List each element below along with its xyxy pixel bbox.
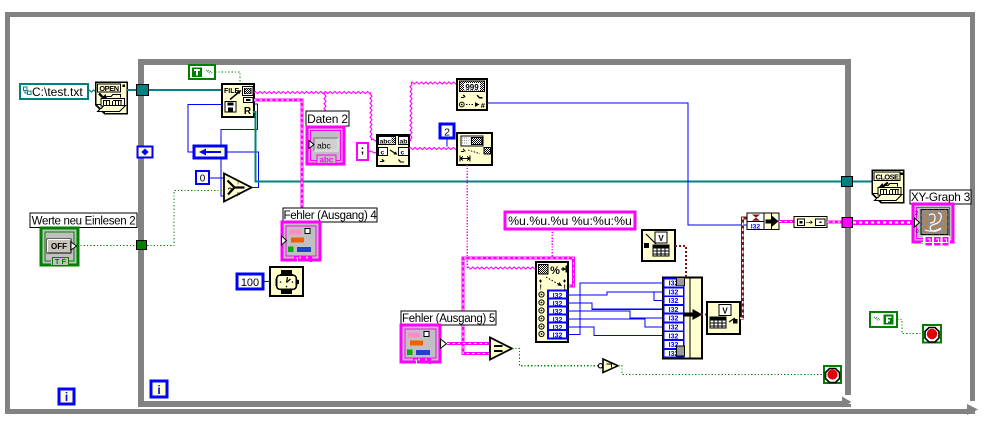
svg-text:I32: I32 xyxy=(553,332,563,339)
svg-text:R: R xyxy=(244,106,252,117)
svg-text:I32: I32 xyxy=(669,325,679,332)
svg-text:999: 999 xyxy=(465,83,479,92)
wire: path constant to Open File (teal squiggle) xyxy=(88,90,97,92)
svg-text:OFF: OFF xyxy=(51,242,67,251)
svg-text:XY-Graph 3: XY-Graph 3 xyxy=(911,190,971,204)
while loop (inner) border xyxy=(141,62,853,408)
label XY-Graph 3 xyxy=(910,190,971,204)
wire: Fehler 5 to Equal (magenta dashed) xyxy=(447,342,490,345)
wire: tunnel to Read File (teal) xyxy=(149,89,223,91)
Build Array node (9 inputs) xyxy=(663,278,703,359)
Decimal String To Number function xyxy=(457,79,487,110)
svg-text:CLOSE: CLOSE xyxy=(876,173,900,182)
boolean constant (F, outer) xyxy=(870,312,897,327)
svg-text:V: V xyxy=(658,234,664,243)
boolean control Werte neu Einlesen 2 (OFF switch) xyxy=(41,228,78,266)
iteration terminal i (outer loop) xyxy=(59,389,74,404)
Select function xyxy=(224,174,252,202)
svg-text:!: ! xyxy=(540,285,542,292)
iteration terminal i (inner loop) xyxy=(151,381,167,397)
wire: Not to loop stop terminal (green dotted) xyxy=(618,366,824,375)
error cluster indicator Fehler (Ausgang) 4 xyxy=(282,222,321,262)
svg-text:C:\test.txt: C:\test.txt xyxy=(32,85,83,99)
svg-text:OPEN: OPEN xyxy=(99,84,118,93)
svg-text:0: 0 xyxy=(200,174,206,185)
wire: to tunnel (magenta dashed) xyxy=(827,221,842,224)
numeric constant 100 xyxy=(237,274,263,289)
numeric constant 2 xyxy=(440,124,454,139)
svg-text:i: i xyxy=(157,383,160,397)
wire: seconds up to Bundle (maroon dashed) xyxy=(740,218,747,318)
svg-text:%u.%u.%u %u:%u:%u: %u.%u.%u %u:%u:%u xyxy=(508,214,632,228)
wire: array out to String Subset (pink zigzag) xyxy=(409,148,457,150)
Not function xyxy=(598,359,618,373)
wire: scan out 4 to array in 6 (blue) xyxy=(567,319,664,327)
Close File function icon xyxy=(872,170,904,203)
label Fehler (Ausgang) 5 xyxy=(401,311,496,325)
wire: Read File pos-out to Select (blue) xyxy=(221,104,258,196)
error cluster indicator Fehler (Ausgang) 5 xyxy=(401,325,447,364)
wire: error cluster loop (magenta dashed) scan node to Fehler 5 and Equal xyxy=(463,258,574,354)
label Daten 2 xyxy=(306,111,349,126)
wire: boolean to tunnel (green dotted) xyxy=(77,245,136,247)
svg-text:I32: I32 xyxy=(669,307,679,314)
wire: format string down to Scan From String (pink dotted) xyxy=(551,229,553,262)
string constant %u.%u.%u %u:%u:%u xyxy=(505,212,635,229)
svg-text:ab: ab xyxy=(400,139,408,146)
svg-text:abc: abc xyxy=(380,139,392,146)
wire: 0 to Select (blue) xyxy=(209,177,224,179)
loop condition terminal (stop, outer) xyxy=(923,325,941,343)
numeric constant 0 xyxy=(196,171,209,185)
svg-text:abc: abc xyxy=(320,156,334,165)
wire: branch to array in 3 (blue) xyxy=(654,292,664,301)
wire: Read File data out (pink string zigzag) xyxy=(254,92,371,94)
Open File function icon xyxy=(96,82,128,114)
wire: tunnel to Close File (teal) xyxy=(853,181,872,183)
svg-text:%: % xyxy=(550,265,560,277)
label Werte neu Einlesen 2 xyxy=(30,213,137,228)
svg-text:T F: T F xyxy=(55,257,67,266)
wire: branch down to Daten 2 indicator (pink zigzag) xyxy=(324,93,326,128)
wire: abc node string out up to Decimal String To Number (pink zigzag) xyxy=(410,83,412,141)
wire: down to Spreadsheet-String-to-Array (pink zigzag) xyxy=(370,93,372,141)
svg-text:;: ; xyxy=(361,144,365,156)
wire: boolean constant to Read File (green dotted) xyxy=(215,72,240,84)
svg-text:Daten 2: Daten 2 xyxy=(307,112,348,126)
Spreadsheet String To Array function xyxy=(377,135,409,166)
svg-text:i: i xyxy=(65,390,68,404)
wire: Read File error out to Fehler (Ausgang) 4 (magenta dashed cluster) xyxy=(254,100,302,222)
Date/Time To Seconds icon xyxy=(707,302,740,334)
label Fehler (Ausgang) 4 xyxy=(283,208,377,222)
svg-text:Fehler (Ausgang) 5: Fehler (Ausgang) 5 xyxy=(402,313,495,325)
tunnel (green, boolean into loop) xyxy=(137,241,147,250)
svg-text:I32: I32 xyxy=(751,223,761,230)
Scan From String function xyxy=(536,262,568,342)
svg-text:c: c xyxy=(401,150,405,157)
Wait Until Next ms Multiple (watch icon) xyxy=(270,267,303,296)
wire: tunnel up to Select s input (green dotted) xyxy=(147,191,224,246)
svg-text:0: 0 xyxy=(916,229,919,235)
wire: Feedback Node out to Read File pos-in (blue) xyxy=(188,105,222,153)
XY graph indicator terminal xyxy=(913,204,953,247)
svg-text:I32: I32 xyxy=(669,333,679,340)
Bundle node xyxy=(747,213,779,230)
Read File function icon xyxy=(222,84,254,117)
String Subset function xyxy=(457,133,492,165)
svg-text:Fehler (Ausgang) 4: Fehler (Ausgang) 4 xyxy=(283,210,377,222)
Get Date/Time In Seconds icon xyxy=(642,230,675,261)
wire: ; to Spreadsheet String to Array (pink zigzag) xyxy=(368,151,377,153)
wire: 2 to String Subset (blue) xyxy=(446,138,448,147)
svg-text:?: ? xyxy=(228,187,233,196)
wire: tunnel to XY Graph (thick magenta dashed) xyxy=(853,220,913,225)
wire: Select output up to Feedback Node (blue) xyxy=(226,152,259,188)
wire: date/time to Build Array (maroon dotted) xyxy=(675,246,686,277)
svg-text:Werte neu Einlesen 2: Werte neu Einlesen 2 xyxy=(32,216,136,228)
wire: number out across and down to Bundle (blue) xyxy=(487,103,747,225)
wire: scan out 2 to array in 4 (blue) xyxy=(567,303,664,309)
wire: scan out 6 to array in 1 (blue) xyxy=(567,283,664,335)
tunnel (magenta, xy data out of loop) xyxy=(842,218,853,228)
tunnel (teal, refnum into inner loop) xyxy=(137,85,149,96)
svg-text:V: V xyxy=(722,307,728,316)
wire: Read File refnum out, down and across to right tunnel (teal) xyxy=(253,112,842,182)
svg-text:c: c xyxy=(381,150,385,157)
Build Array (xy pairs) small node xyxy=(794,217,827,228)
Equal? function xyxy=(490,338,512,360)
svg-text:2: 2 xyxy=(444,127,450,139)
svg-text:100: 100 xyxy=(241,277,259,289)
wire: scan out 3 to array in 5 (blue) xyxy=(567,311,664,318)
loop condition terminal (stop, inner) xyxy=(824,366,841,383)
wire: Build Array out to Date/Time To Seconds (maroon dotted) xyxy=(701,314,707,316)
wire: Equal to Not (green dotted) xyxy=(512,349,599,366)
svg-text:2: 2 xyxy=(915,211,918,217)
boolean constant (T) xyxy=(189,65,215,79)
wire: Bundle out to Array-To-Cluster (magenta dashed) xyxy=(779,220,794,223)
feedback node xyxy=(194,146,226,158)
wire: 100 to Wait (blue) xyxy=(263,281,271,283)
string constant ; xyxy=(357,143,368,160)
wire: Open File to tunnel (teal) xyxy=(127,89,137,91)
wire: String Subset out down to Scan From String (pink dotted) xyxy=(466,165,468,268)
string indicator Daten 2 xyxy=(307,127,344,165)
svg-text:abc: abc xyxy=(317,141,331,151)
path constant C:\test.txt xyxy=(20,84,88,99)
wire: F constant to outer stop terminal (green dotted) xyxy=(897,320,923,334)
svg-text:I32: I32 xyxy=(669,316,679,323)
svg-text:I32: I32 xyxy=(669,298,679,305)
wire: scan out 1 to array in 2 (blue) xyxy=(567,292,664,295)
Scan From String output terminals I32 x6 xyxy=(539,291,567,340)
tunnel (teal, refnum out of inner loop) xyxy=(842,177,853,187)
svg-text:I32: I32 xyxy=(669,290,679,297)
feedback node initializer terminal (loop border) xyxy=(138,147,153,158)
wire: scan out 5 to array in 7 (blue) xyxy=(567,327,664,336)
